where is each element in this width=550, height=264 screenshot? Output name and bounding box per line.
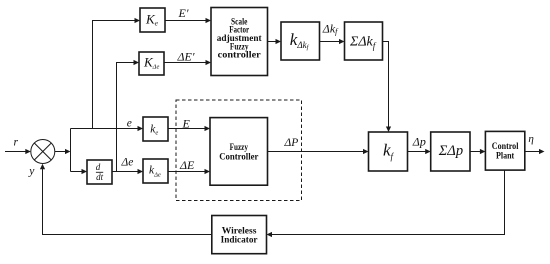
svg-text:kΔkf: kΔkf: [290, 30, 310, 51]
node split junction vertical: [70, 129, 72, 172]
arrowhead into k_dkf: [276, 39, 282, 44]
arrowhead into fuzzy dE: [205, 169, 211, 174]
wire feedback down: [272, 170, 505, 234]
svg-text:Plant: Plant: [496, 152, 515, 162]
label d/dt: [96, 162, 104, 182]
arrowhead to split: [65, 149, 71, 154]
box wireless indicator: [212, 216, 267, 254]
svg-text:E′: E′: [178, 6, 189, 20]
wire sum dkf to k_f: [383, 42, 389, 128]
box k_f: [369, 132, 408, 171]
svg-text:Indicator: Indicator: [221, 236, 258, 246]
arrowhead into circle: [25, 149, 31, 154]
svg-text:dt: dt: [96, 172, 104, 182]
svg-text:Fuzzy: Fuzzy: [230, 143, 249, 153]
arrowhead into wireless: [267, 232, 273, 237]
arrowhead into k_de2: [138, 169, 144, 174]
wire eta out: [525, 151, 539, 153]
svg-text:ΔP: ΔP: [284, 137, 299, 149]
d/dt box: [87, 160, 112, 184]
svg-text:Δp: Δp: [412, 135, 426, 149]
box sum dp: [431, 132, 470, 171]
arrowhead up into circle: [40, 164, 45, 170]
svg-text:KΔe: KΔe: [143, 54, 159, 70]
wire E': [165, 20, 206, 22]
wire E: [168, 128, 205, 130]
arrowhead eta out: [539, 149, 545, 154]
box k_dkf: [281, 22, 320, 60]
wire tap to K_e: [93, 21, 135, 129]
svg-text:ΔE: ΔE: [179, 158, 195, 172]
svg-text:E: E: [182, 117, 191, 131]
arrowhead into K_de: [134, 60, 140, 65]
svg-text:kf: kf: [383, 141, 395, 162]
wire circle to junction: [55, 151, 66, 153]
svg-text:Ke: Ke: [145, 12, 159, 28]
arrowhead down into k_f: [386, 127, 391, 133]
box k_de2: [143, 159, 168, 183]
arrowhead into K_e: [135, 18, 141, 23]
wire r input: [5, 151, 27, 153]
wire tap to K_de: [117, 63, 135, 172]
svg-text:ke: ke: [150, 123, 158, 136]
wire scale to k_dkf: [268, 41, 277, 43]
arrowhead into k_e: [138, 126, 144, 131]
arrowhead into d/dt: [82, 169, 88, 174]
wire feedback left: [43, 169, 212, 235]
box scale factor controller: [211, 8, 268, 76]
wire d/dt to k_de: [112, 171, 138, 173]
box K_e: [140, 8, 165, 32]
wire e line: [71, 128, 139, 130]
svg-text:r: r: [14, 137, 19, 149]
svg-text:ΔE′: ΔE′: [177, 50, 195, 64]
arrowhead into fuzzy E: [205, 126, 211, 131]
svg-text:y: y: [28, 166, 35, 178]
svg-text:Δe: Δe: [121, 157, 134, 169]
svg-text:e: e: [127, 118, 132, 130]
arrowhead into k_f left: [363, 149, 369, 154]
wire dE': [164, 62, 206, 64]
box fuzzy controller: [210, 118, 268, 186]
wire dP: [268, 151, 364, 153]
svg-text:kΔe: kΔe: [149, 164, 161, 178]
box k_e: [143, 117, 168, 141]
box K_de: [139, 52, 164, 75]
arrowhead into sum dkf: [339, 39, 345, 44]
wire sum dp to plant: [470, 151, 480, 153]
summing junction: [31, 140, 55, 164]
arrowhead into sum dp: [425, 149, 431, 154]
svg-text:Controller: Controller: [219, 152, 258, 162]
box control plant: [485, 131, 524, 170]
arrowhead into scale box top: [206, 18, 212, 23]
svg-text:controller: controller: [218, 51, 261, 61]
svg-text:ΣΔkf: ΣΔkf: [349, 35, 377, 52]
svg-text:Control: Control: [492, 142, 519, 152]
arrowhead into scale box bottom: [206, 60, 212, 65]
arrowhead into plant: [480, 149, 486, 154]
box sum dkf: [345, 22, 383, 60]
svg-text:ΣΔp: ΣΔp: [438, 143, 463, 159]
svg-text:η: η: [528, 133, 533, 145]
wire dk_f: [320, 41, 340, 43]
wire to d/dt: [71, 171, 83, 173]
wire dE: [168, 171, 205, 173]
dashed fuzzy region: [176, 100, 302, 201]
svg-text:d: d: [96, 162, 101, 172]
svg-text:Δkf: Δkf: [322, 21, 339, 36]
wire k_f to sum dp: [408, 151, 426, 153]
